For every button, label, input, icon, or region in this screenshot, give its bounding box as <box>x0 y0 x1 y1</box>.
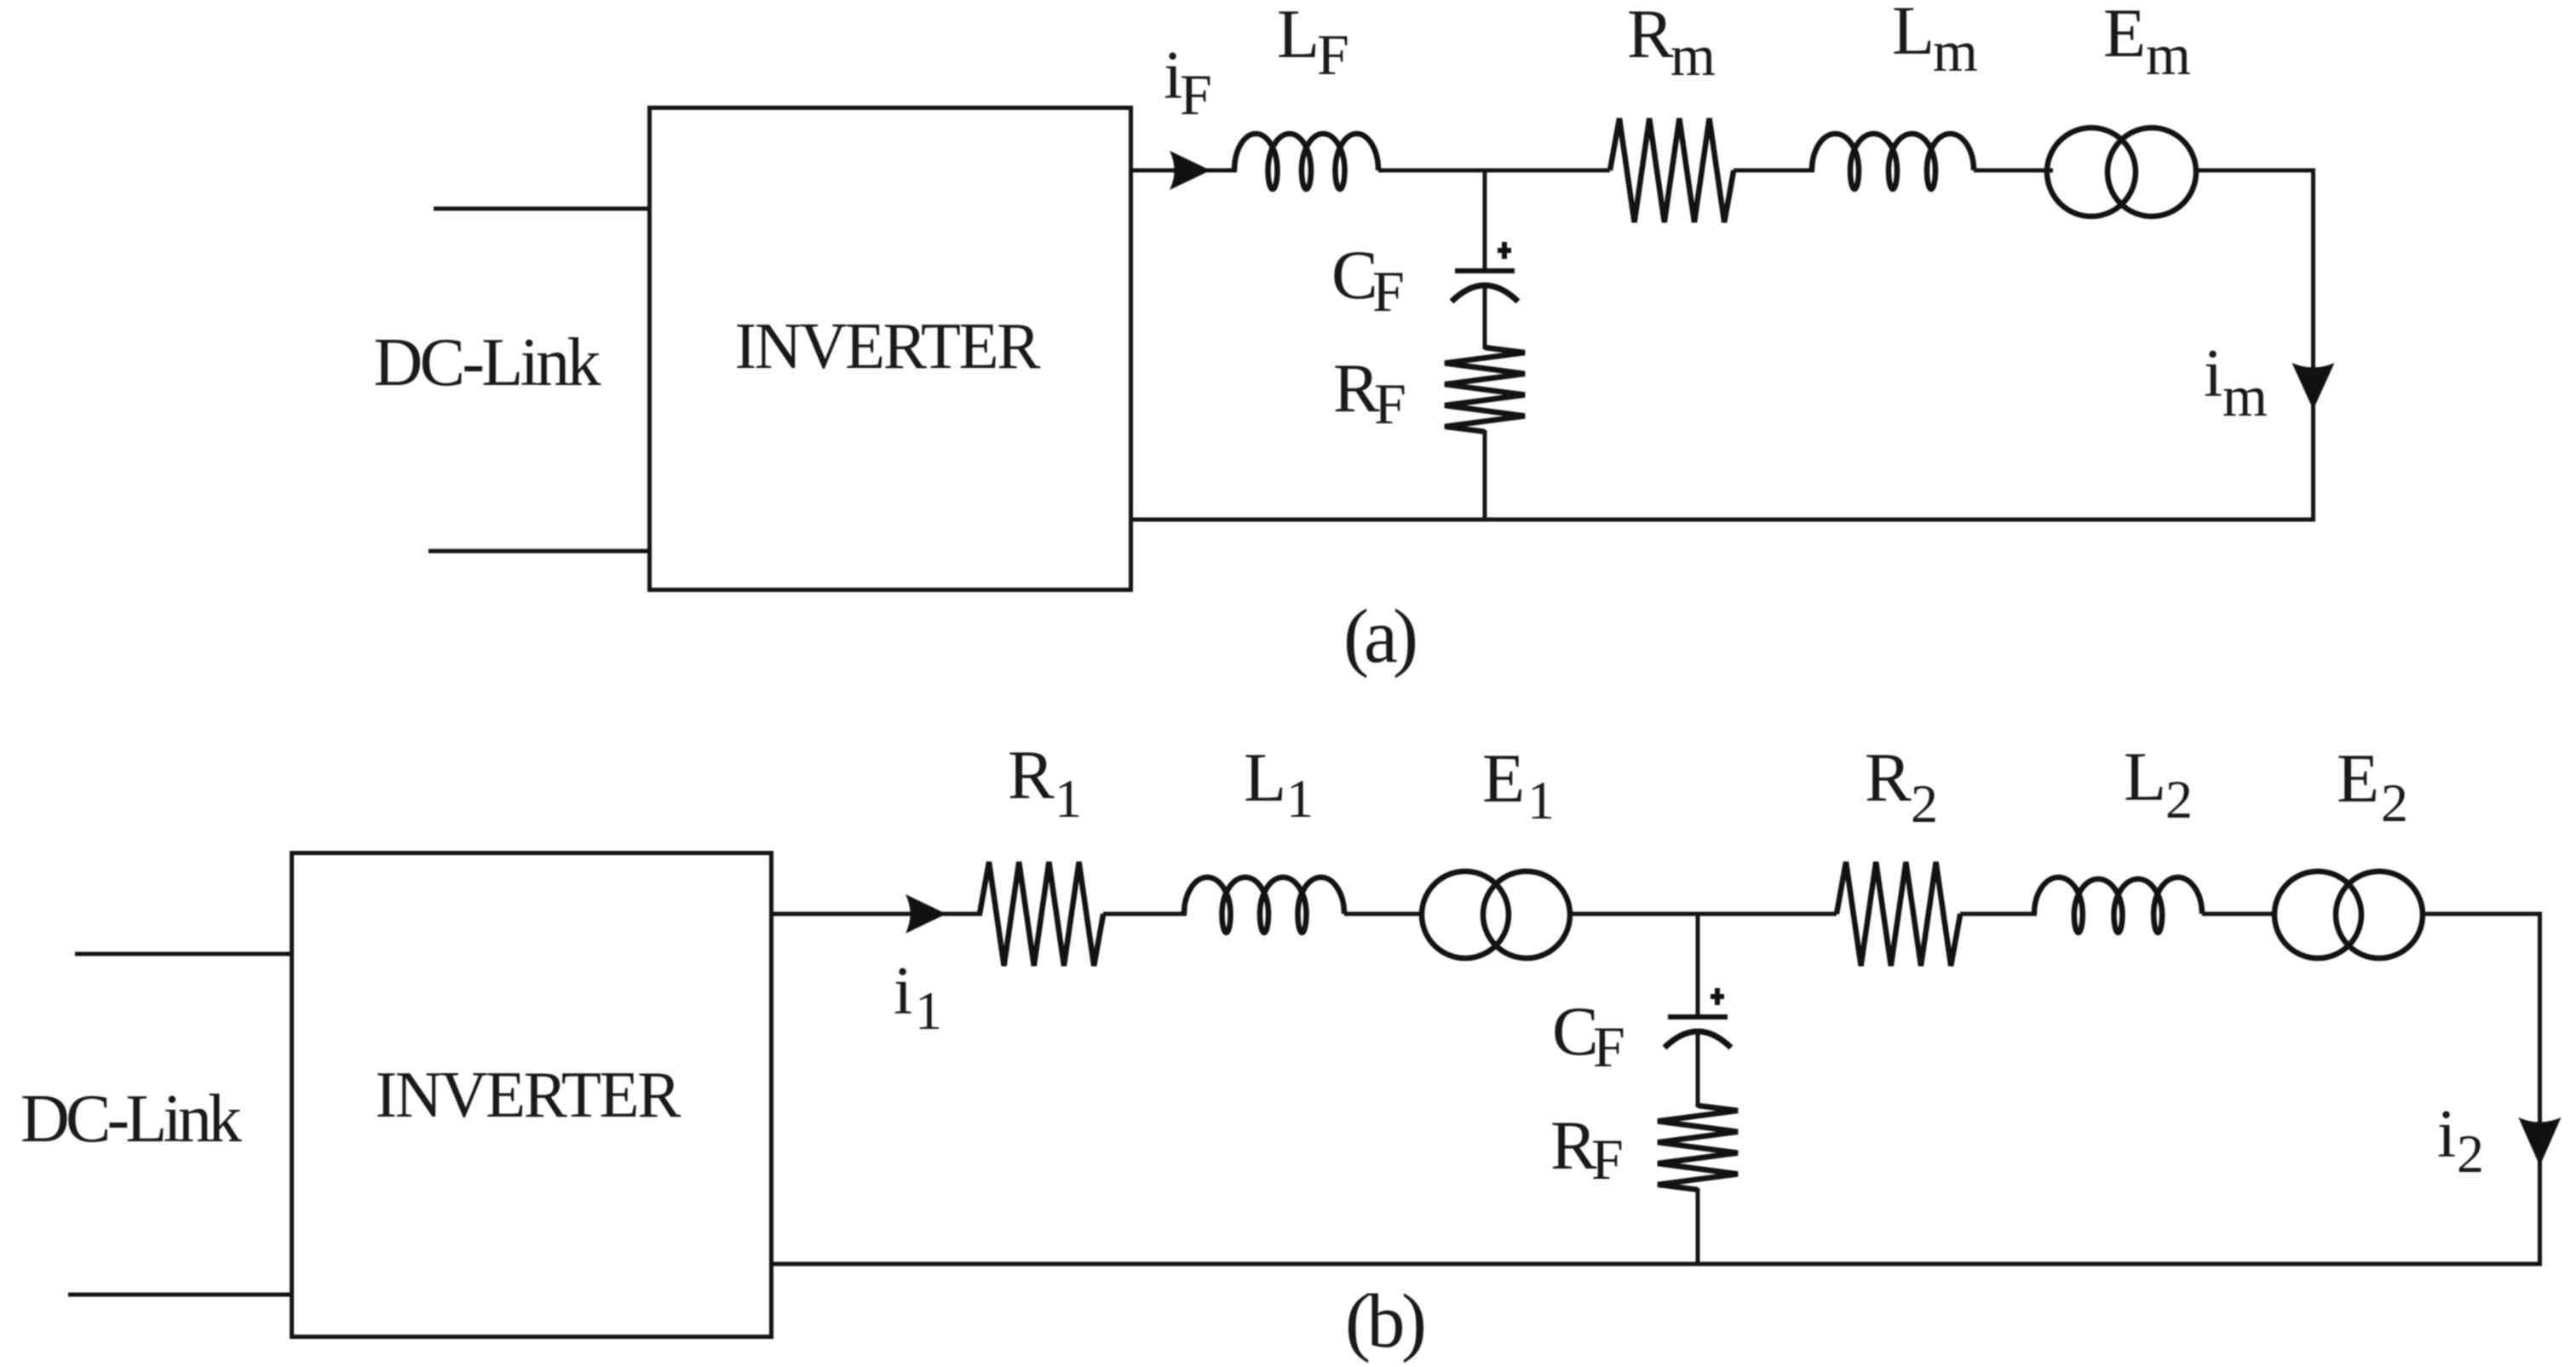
svg-text:E: E <box>1482 739 1525 817</box>
svg-text:C: C <box>1331 236 1378 313</box>
wire: DC-link bottom lead (a) <box>428 549 652 554</box>
capacitor C_F (a) <box>1455 268 1515 273</box>
svg-text:R: R <box>1550 1106 1597 1184</box>
svg-text:i: i <box>894 954 912 1029</box>
svg-text:F: F <box>1593 1014 1625 1079</box>
svg-text:INVERTER: INVERTER <box>735 309 1042 382</box>
svg-text:F: F <box>1317 22 1349 87</box>
svg-text:F: F <box>1372 259 1405 324</box>
wire: right vertical leg (a) <box>2311 170 2315 521</box>
svg-text:L: L <box>1277 0 1320 72</box>
resistor R_F (a) <box>1445 347 1525 432</box>
source E2 <box>2274 871 2361 958</box>
resistor R_m <box>1610 118 1734 222</box>
capacitor C_F (b) <box>1668 1014 1728 1020</box>
svg-text:F: F <box>1180 62 1212 127</box>
svg-text:R: R <box>1008 736 1055 813</box>
svg-text:R: R <box>1627 0 1674 72</box>
wire: L2 to E2 <box>2202 912 2277 916</box>
svg-text:(a): (a) <box>1343 594 1418 679</box>
current arrow i_m <box>2292 363 2335 410</box>
wire: L1 to E1 <box>1344 912 1424 916</box>
inverter block U1 (a) <box>650 108 1131 590</box>
wire: R_m to L_m <box>1734 169 1814 173</box>
svg-text:DC-Link: DC-Link <box>374 325 601 400</box>
svg-text:E: E <box>2337 739 2379 817</box>
node: shunt junction (b) <box>1696 912 1700 1019</box>
svg-text:R: R <box>1333 349 1380 427</box>
resistor R_F (b) <box>1658 1106 1738 1190</box>
svg-text:C: C <box>1552 992 1599 1070</box>
source E1 <box>1422 871 1509 958</box>
current arrow i_2 <box>2519 1117 2562 1166</box>
wire: E2 to right leg (b) <box>2424 912 2542 916</box>
svg-text:1: 1 <box>1527 770 1555 830</box>
svg-text:m: m <box>1670 23 1716 88</box>
source E_m <box>2047 128 2136 216</box>
inverter block U2 (b) <box>292 853 772 1337</box>
svg-text:m: m <box>1933 19 1978 83</box>
current arrow i_F <box>1170 151 1210 190</box>
svg-text:L: L <box>1892 0 1935 69</box>
inductor L1 <box>1184 877 1344 933</box>
wire: R2 to L2 <box>1960 912 2037 916</box>
wire: DC-link bottom lead (b) <box>68 1293 294 1297</box>
node: shunt junction (a) <box>1483 169 1487 273</box>
svg-text:2: 2 <box>2457 1123 2484 1184</box>
svg-text:2: 2 <box>1911 773 1938 834</box>
wire: R_F to bottom rail (a) <box>1483 430 1487 521</box>
svg-text:i: i <box>2437 1097 2456 1172</box>
svg-text:F: F <box>1591 1127 1624 1192</box>
wire: R_F to bottom rail (b) <box>1696 1188 1700 1266</box>
wire: right vertical leg (b) <box>2538 914 2542 1266</box>
wire: inverter output to L_F (a) <box>1131 169 1237 173</box>
wire: E1 to R2 through node (b) <box>1570 912 1837 916</box>
wire: L_F to R_m through node (a) <box>1378 169 1610 173</box>
inductor L2 <box>2034 877 2202 933</box>
wire: capacitor to R_F (a) <box>1483 286 1487 349</box>
svg-text:m: m <box>2222 364 2268 428</box>
wire: R1 to L1 <box>1103 912 1187 916</box>
svg-text:1: 1 <box>915 980 942 1041</box>
svg-text:L: L <box>2124 738 2166 815</box>
svg-text:(b): (b) <box>1345 1279 1427 1364</box>
wire: DC-link top lead (b) <box>75 952 294 956</box>
wire: DC-link top lead (a) <box>434 207 652 211</box>
svg-text:F: F <box>1374 371 1406 436</box>
inductor L_m <box>1812 134 1974 189</box>
svg-text:m: m <box>2146 22 2191 87</box>
svg-text:INVERTER: INVERTER <box>376 1058 682 1131</box>
svg-text:DC-Link: DC-Link <box>20 1082 242 1157</box>
current arrow i_1 <box>906 894 946 933</box>
svg-text:R: R <box>1865 738 1912 816</box>
svg-text:i: i <box>2204 336 2222 411</box>
wire: bottom rail (a) <box>1131 518 2315 522</box>
svg-text:1: 1 <box>1286 768 1314 829</box>
wire: capacitor to R_F (b) <box>1696 1032 1700 1107</box>
wire: E_m to right leg (a) <box>2196 169 2315 173</box>
inductor L_F <box>1234 134 1378 189</box>
svg-text:2: 2 <box>2381 773 2408 833</box>
resistor R2 <box>1837 862 1960 966</box>
wire: L_m to E_m <box>1974 169 2053 173</box>
wire: bottom rail (b) <box>772 1262 2542 1266</box>
wire: inverter output to R_1 (b) <box>772 912 982 916</box>
svg-text:2: 2 <box>2165 769 2193 830</box>
resistor R1 <box>980 862 1103 966</box>
svg-text:1: 1 <box>1055 768 1082 829</box>
svg-text:L: L <box>1244 738 1286 816</box>
svg-text:E: E <box>2103 0 2146 72</box>
